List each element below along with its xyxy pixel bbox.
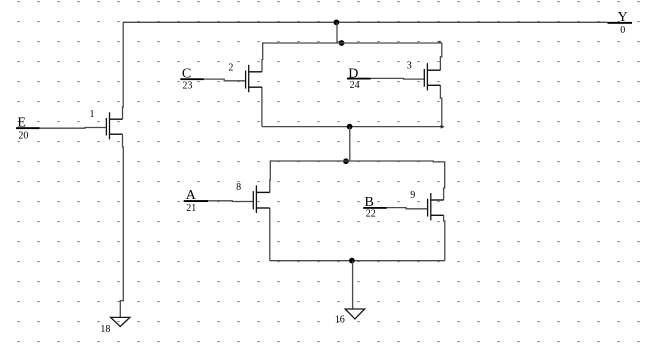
wire: lower pair right edge (M9 source to bottom rail) [444, 215, 445, 260]
wire stub artifact above upper pair top rail right corner [438, 41, 441, 43]
svg-text:1: 1 [90, 109, 95, 120]
junction dot: lower pair top rail [343, 158, 349, 164]
wire: net Y top horizontal rail [123, 21, 607, 23]
junction dot: upper pair bottom rail [347, 124, 353, 130]
port D [347, 66, 371, 81]
transistor M3 (pin 3, gate D) [424, 63, 440, 90]
wire: lower pair right edge (top rail to M9 drain) [444, 161, 445, 200]
svg-text:9: 9 [410, 190, 415, 201]
pin number 1 [90, 109, 95, 120]
svg-text:16: 16 [335, 314, 345, 325]
net number 20 [18, 131, 28, 142]
svg-text:23: 23 [182, 81, 192, 92]
svg-text:2: 2 [228, 63, 233, 74]
transistor M2 (pin 2, gate C) [246, 65, 262, 93]
svg-text:3: 3 [407, 61, 412, 72]
svg-text:24: 24 [350, 80, 360, 91]
port Y [608, 10, 633, 25]
transistor M9 (pin 9, gate B) [428, 193, 444, 220]
pin number 3 [407, 61, 412, 72]
svg-text:8: 8 [236, 182, 241, 193]
svg-text:0: 0 [620, 25, 625, 36]
junction dot: net Y to upper pair [334, 20, 340, 26]
wire: upper pair right edge (M3 source to bottom rail) [440, 85, 441, 126]
junction dot: upper pair top rail [339, 40, 345, 46]
junction dot: lower pair bottom rail [349, 258, 355, 264]
pin number 9 [410, 190, 415, 201]
pin number 8 [236, 182, 241, 193]
wire: upper pair left edge (top rail to M2 drain) [261, 42, 264, 71]
wire: B gate wire to M9 [387, 208, 428, 209]
net number 22 [366, 209, 376, 220]
wire: C gate wire to M2 [204, 79, 246, 81]
corner artifact at upper pair bottom-right [440, 125, 444, 129]
svg-text:18: 18 [100, 324, 110, 335]
net number 18 [100, 324, 110, 335]
ground symbol 18 [111, 317, 130, 326]
wire: E gate wire to M1 [40, 127, 107, 130]
wire: lower pair left edge (top rail to M8 drain) [269, 160, 272, 192]
pin number 2 [228, 63, 233, 74]
port A [184, 188, 208, 203]
wire: left vertical from net Y down to M1 drain [122, 22, 125, 120]
transistor M8 (pin 8, gate A) [253, 185, 269, 213]
port B [363, 195, 387, 210]
ground symbol 16 [345, 309, 364, 319]
wire: lower pair top rail [270, 160, 444, 163]
svg-text:21: 21 [186, 203, 196, 214]
port E [16, 115, 40, 130]
svg-text:22: 22 [366, 209, 376, 220]
net number 16 [335, 314, 345, 325]
wire: upper pair left edge (M2 source to bottom rail) [261, 87, 263, 126]
wire: D gate wire to M3 [371, 77, 425, 80]
transistor M1 (pin 1, gate E) [106, 112, 122, 139]
wire: lower pair left edge (M8 source to bottom rail) [269, 208, 271, 261]
wire: A gate wire to M8 [208, 200, 253, 203]
wire: M1 source down to ground 18 [120, 134, 123, 317]
net number 0 [620, 25, 625, 36]
wire: upper pair right edge (top rail to M3 drain) [440, 42, 441, 70]
wire: lower pair bottom rail [270, 260, 445, 262]
net number 23 [182, 81, 192, 92]
wire: vertical between upper pair and lower pair [349, 127, 351, 162]
net number 24 [350, 80, 360, 91]
wire: vertical from net Y down to upper pair top rail [336, 22, 338, 43]
port C [180, 67, 204, 82]
wire: lower pair bottom rail down to ground 16 [352, 261, 354, 309]
net number 21 [186, 203, 196, 214]
wire: upper pair top rail [263, 42, 442, 44]
wire: upper pair bottom rail [262, 126, 442, 128]
svg-text:20: 20 [18, 131, 28, 142]
